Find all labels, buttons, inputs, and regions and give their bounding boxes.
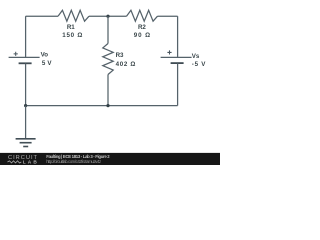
CircuitLab logo [8,155,38,165]
ground [16,139,36,147]
wire top-right segment [158,15,178,17]
svg-text:90 Ω: 90 Ω [134,32,150,39]
wire R3 bottom lead [107,75,109,106]
svg-text:R2: R2 [138,24,146,31]
voltage source Vs [161,50,207,68]
svg-text:5 V: 5 V [42,60,52,67]
resistor R1 [58,10,89,39]
wire top-middle segment [89,15,127,17]
node junction bottom-left [24,104,27,107]
svg-text:LAB: LAB [23,159,38,165]
voltage source Vo [9,52,53,67]
svg-text:http://circuitlab.com/c42fe2am: http://circuitlab.com/c42fe2amu2v4z [46,159,101,164]
node junction bottom (R3 to bottom wire) [106,104,109,107]
svg-text:Vs: Vs [192,53,200,60]
svg-text:150 Ω: 150 Ω [62,32,82,39]
wire right vertical lower [177,63,179,105]
svg-text:R3: R3 [116,52,124,59]
wire right vertical upper [177,16,179,57]
svg-text:402 Ω: 402 Ω [116,61,136,68]
svg-text:Vo: Vo [41,52,49,59]
wire R3 top lead [107,16,109,43]
svg-text:R1: R1 [67,24,75,31]
footer bar [0,153,220,165]
svg-text:-5 V: -5 V [192,61,206,68]
wire bottom [26,105,178,107]
wire left vertical upper [25,16,27,57]
wire ground stem [25,106,27,139]
wire left vertical lower [25,64,27,106]
wire top-left segment [26,15,58,17]
node junction top (R3 to top wire) [106,15,109,18]
resistor R2 [127,10,158,39]
resistor R3 [103,44,136,75]
